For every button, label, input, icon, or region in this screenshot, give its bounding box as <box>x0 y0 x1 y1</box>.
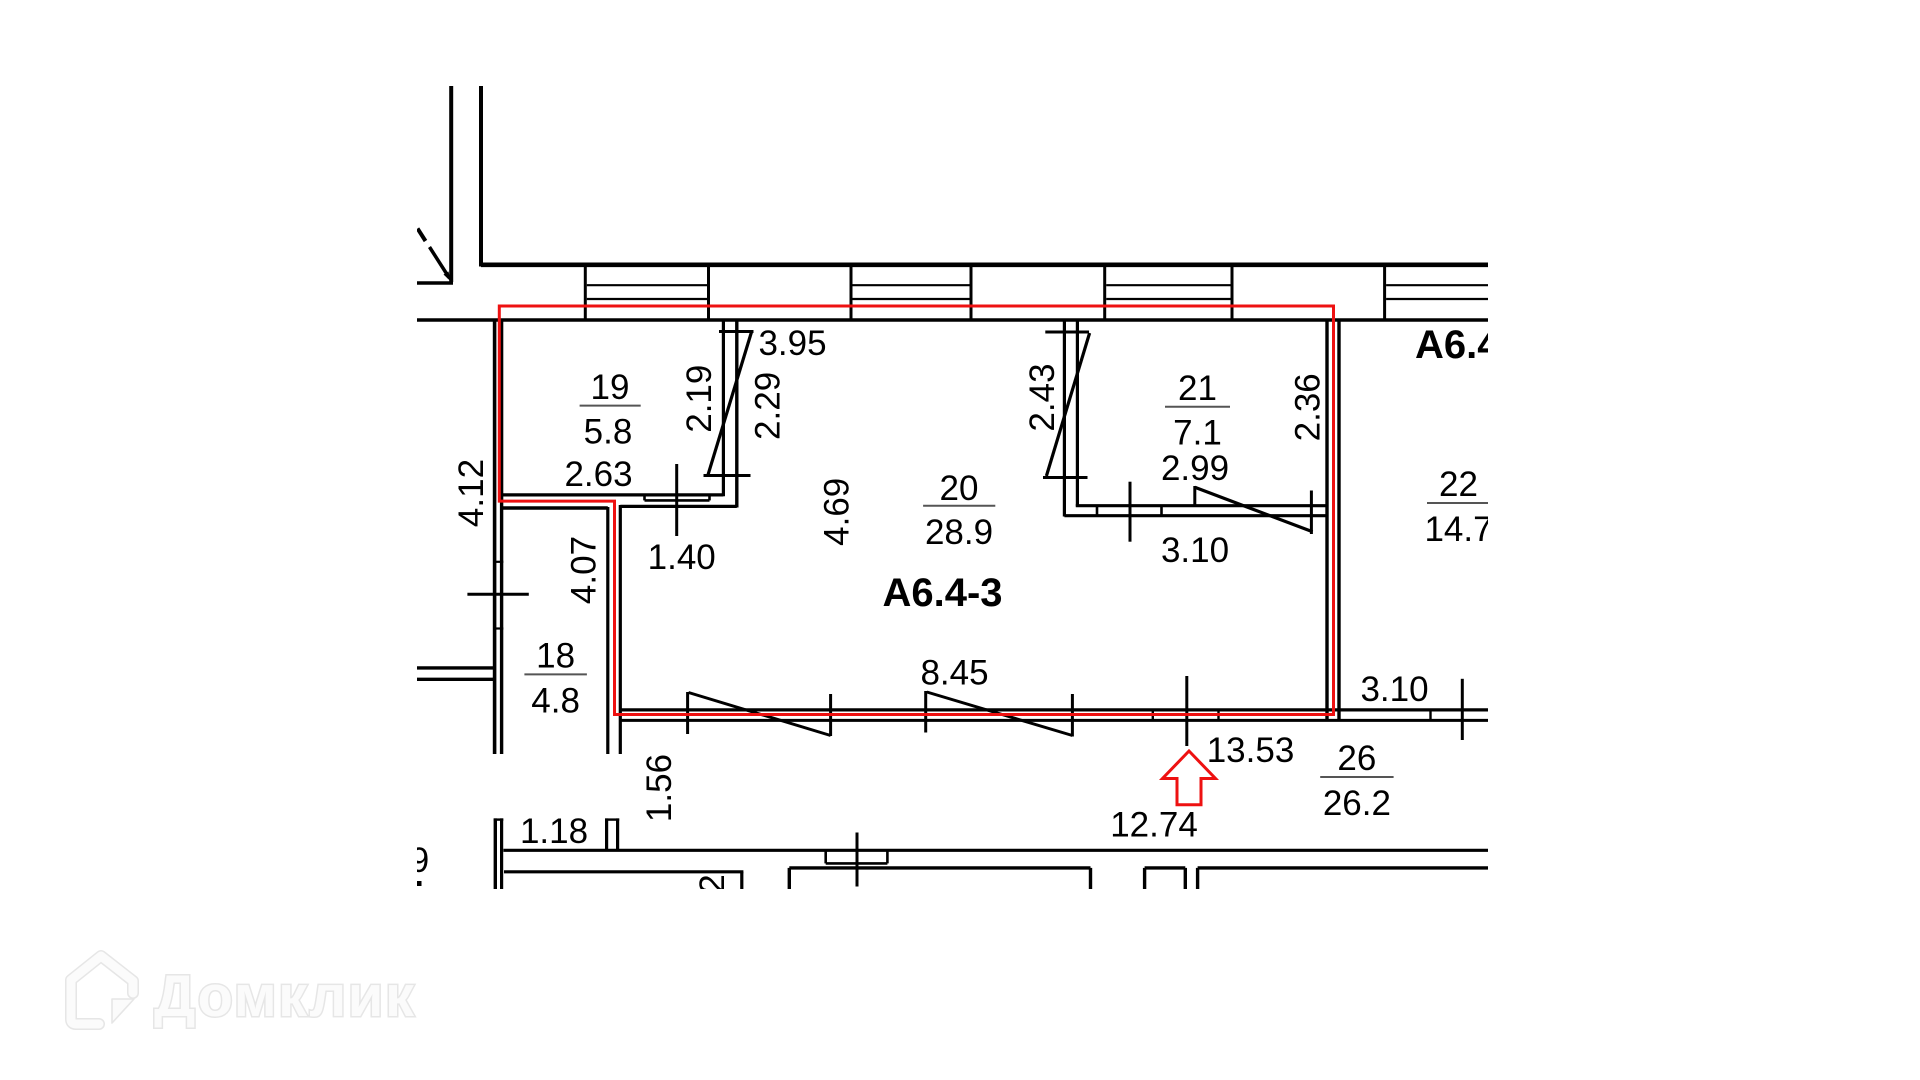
wall between rooms 18 and 20, line 2 <box>619 505 622 754</box>
svg-text:14.7: 14.7 <box>1424 510 1492 549</box>
wall top-left ledge <box>417 281 453 285</box>
svg-text:4.8: 4.8 <box>531 681 580 720</box>
dimension tick 4.12/4.07 on left wall <box>467 593 528 596</box>
lower left wall pair continuation <box>494 818 497 889</box>
window pier divider 4 <box>970 265 973 320</box>
svg-text:2.29: 2.29 <box>748 372 787 440</box>
facade wall interior line <box>417 318 1488 321</box>
room 21 door tick bottom <box>1043 476 1088 479</box>
room 21 door tick top <box>1045 331 1089 334</box>
balcony window break 2 <box>924 691 927 733</box>
svg-text:20: 20 <box>940 469 979 508</box>
svg-text:2.19: 2.19 <box>680 365 719 433</box>
facade wall top line <box>481 262 1488 267</box>
wall left of rooms 19 and 18, outer line <box>493 320 497 754</box>
lower doorway recess <box>824 850 827 863</box>
watermark house icon <box>71 956 133 1024</box>
svg-text:3.10: 3.10 <box>1161 531 1229 570</box>
watermark Domklik logo <box>71 956 415 1029</box>
apartment bottom wall upper line <box>620 708 1488 711</box>
red outline of apartment A6.4-3 <box>499 306 1333 715</box>
wall between rooms 18 and 20, line 1 <box>606 507 609 754</box>
svg-text:12.74: 12.74 <box>1110 806 1198 845</box>
dimension tick at entry <box>1185 676 1188 746</box>
room 19 door tick bottom <box>704 474 751 477</box>
svg-text:4.07: 4.07 <box>564 536 603 604</box>
room 19 right wall outer line <box>735 320 738 508</box>
bottom wall joints <box>1152 710 1154 721</box>
svg-text:26.2: 26.2 <box>1323 784 1391 823</box>
lower wall segment A <box>789 866 1090 869</box>
right wall line 1 <box>1325 320 1328 721</box>
room 18 top wall line <box>502 506 608 510</box>
room 21 bottom wall lower line <box>1064 514 1327 517</box>
svg-text:2.43: 2.43 <box>1023 363 1062 431</box>
window 3 sills <box>1106 284 1230 286</box>
watermark flag triangle <box>112 999 134 1023</box>
room 21 left wall inner line <box>1076 320 1079 507</box>
svg-text:13.53: 13.53 <box>1207 731 1295 770</box>
room 19 door leaf <box>708 332 752 475</box>
1.18 niche right pair <box>605 818 608 850</box>
wall top-left exterior vertical 1 <box>449 86 453 282</box>
room 21 door leaf <box>1046 333 1089 476</box>
svg-text:26: 26 <box>1337 739 1376 778</box>
window pier divider 7 <box>1383 265 1386 320</box>
window pier divider 3 <box>850 265 853 320</box>
svg-text:А6.4: А6.4 <box>1415 323 1500 367</box>
window 2 sills <box>853 284 970 286</box>
room 19 door tick top <box>719 330 754 333</box>
svg-text:Домклик: Домклик <box>154 964 415 1029</box>
dimension tick 3.10 left <box>1129 482 1132 542</box>
svg-text:18: 18 <box>536 637 575 676</box>
svg-text:2.63: 2.63 <box>564 455 632 494</box>
svg-text:1.56: 1.56 <box>640 754 679 822</box>
window pier divider 1 <box>584 265 587 320</box>
svg-text:4.12: 4.12 <box>452 459 491 527</box>
svg-text:1.18: 1.18 <box>520 812 588 851</box>
lower wall segment B <box>1145 866 1186 869</box>
window pier divider 5 <box>1103 265 1106 320</box>
window 4 sills <box>1386 284 1488 286</box>
break-line arrow top-left <box>430 247 450 278</box>
break-line dash top-left <box>418 229 426 242</box>
svg-text:28.9: 28.9 <box>925 513 993 552</box>
stub wall left of room 18 <box>417 666 495 669</box>
svg-text:5.8: 5.8 <box>584 413 633 452</box>
room 19 door threshold <box>645 499 710 502</box>
lower second wall line <box>504 870 743 873</box>
svg-text:2.36: 2.36 <box>1288 373 1327 441</box>
red entry arrow <box>1163 751 1216 805</box>
svg-text:А6.4-3: А6.4-3 <box>882 571 1002 615</box>
room 19 bottom wall lower line <box>620 505 737 508</box>
svg-text:4.69: 4.69 <box>818 478 857 546</box>
room 21 left wall outer line <box>1063 320 1066 517</box>
wall left inner line <box>500 320 503 754</box>
room 21 sliding door diagonal <box>1195 487 1313 532</box>
svg-text:3.95: 3.95 <box>758 324 826 363</box>
svg-text:7.1: 7.1 <box>1173 414 1222 453</box>
lower corridor long wall line <box>503 849 1488 852</box>
wall joint marks left wall <box>493 561 503 563</box>
dimension tick 1.40 doorway <box>675 464 678 536</box>
wall top-left exterior vertical 2 <box>479 86 483 267</box>
room 19 right wall inner line <box>722 320 725 496</box>
svg-text:22: 22 <box>1439 465 1478 504</box>
svg-text:19: 19 <box>591 368 630 407</box>
window pier divider 6 <box>1231 265 1234 320</box>
svg-text:1.40: 1.40 <box>648 538 716 577</box>
lower wall segment C <box>1198 866 1488 869</box>
room 19 bottom wall upper line <box>502 493 724 496</box>
svg-text:8.45: 8.45 <box>920 654 988 693</box>
svg-text:21: 21 <box>1178 369 1217 408</box>
window 1 sills <box>587 284 707 286</box>
window pier divider 2 <box>707 265 710 320</box>
right wall line 2 <box>1337 320 1340 721</box>
balcony window break 1 <box>686 692 689 734</box>
dimension tick 3.10 bottom right <box>1461 679 1464 740</box>
svg-text:3.10: 3.10 <box>1360 670 1428 709</box>
lower tick <box>856 833 859 887</box>
apartment bottom wall lower line <box>620 719 1488 722</box>
room 21 bottom wall upper line <box>1076 504 1327 507</box>
room 21 bottom wall jambs <box>1096 506 1099 516</box>
svg-text:2.99: 2.99 <box>1161 449 1229 488</box>
